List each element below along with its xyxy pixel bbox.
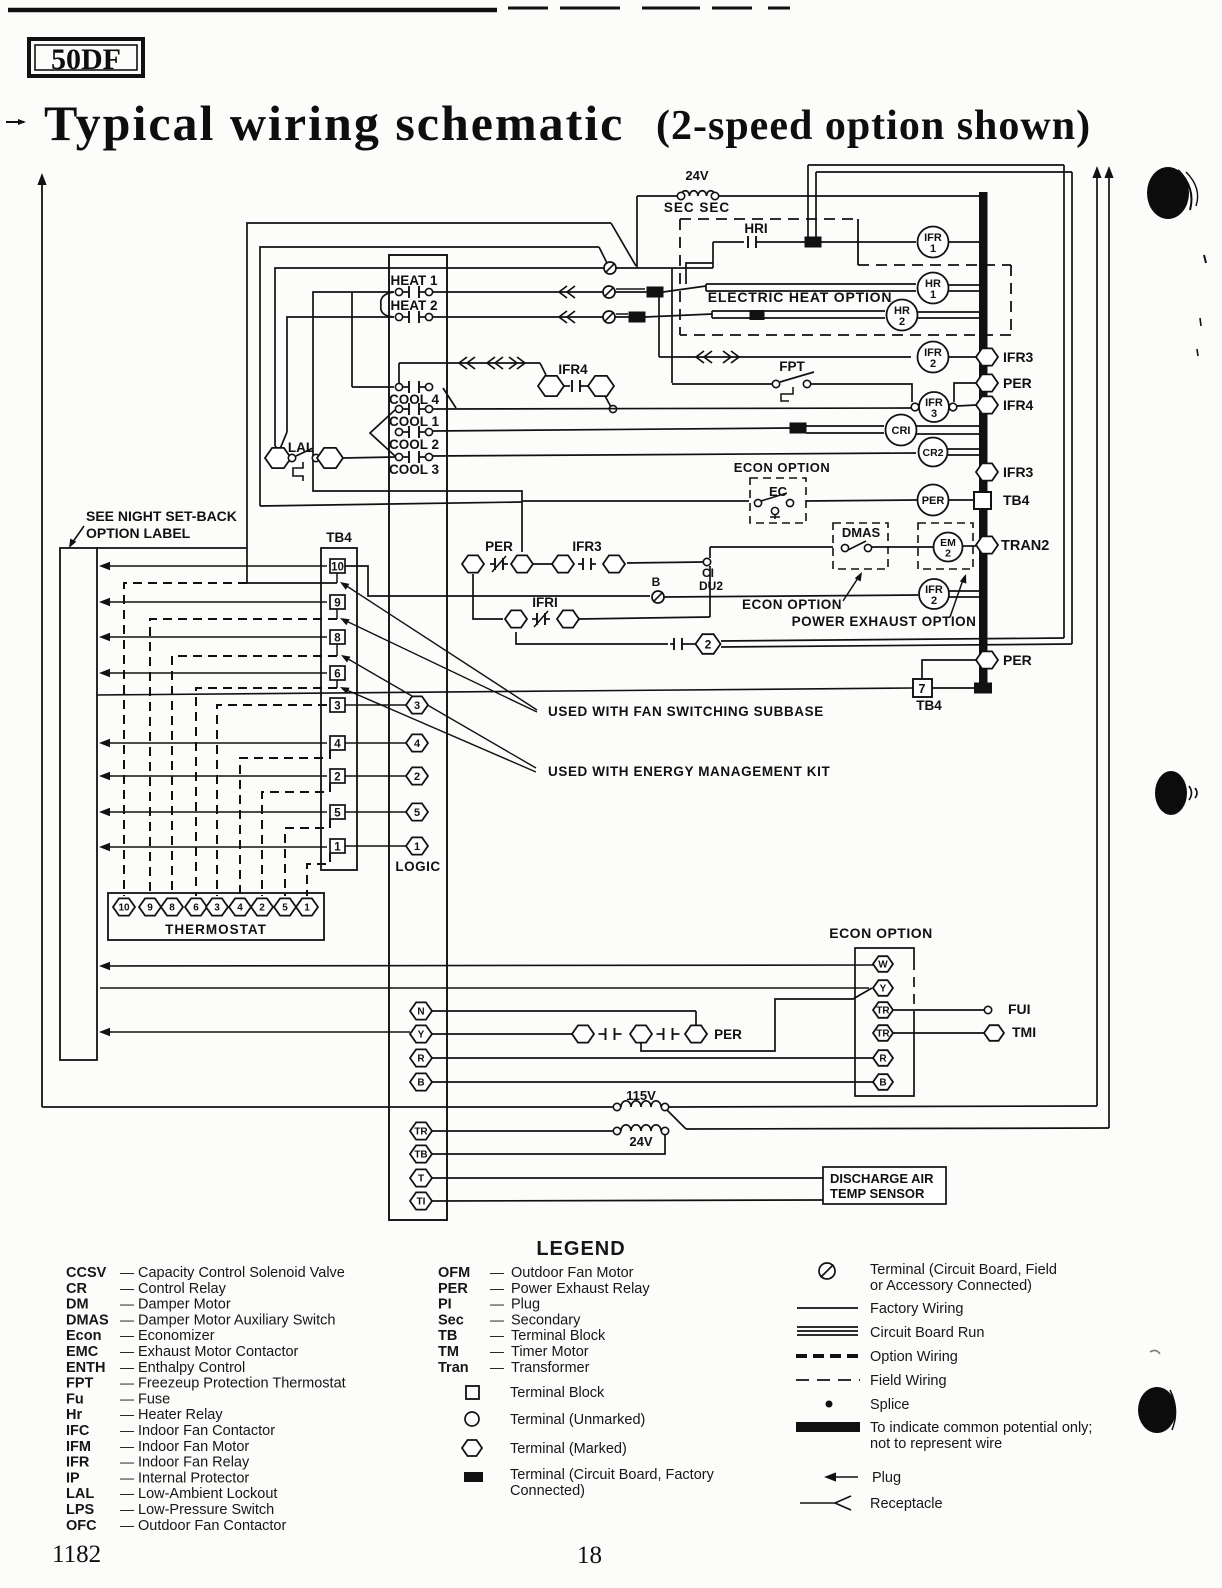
svg-text:Outdoor Fan Contactor: Outdoor Fan Contactor: [138, 1518, 286, 1534]
svg-text:—: —: [490, 1264, 504, 1280]
svg-text:—: —: [490, 1296, 504, 1312]
svg-text:or Accessory Connected): or Accessory Connected): [870, 1278, 1032, 1294]
svg-text:HEAT 2: HEAT 2: [390, 298, 437, 313]
svg-text:—: —: [120, 1375, 134, 1391]
svg-text:—: —: [120, 1343, 134, 1359]
svg-text:CCSV: CCSV: [66, 1265, 107, 1281]
svg-text:DISCHARGE AIR: DISCHARGE AIR: [830, 1171, 934, 1186]
svg-text:FUI: FUI: [1008, 1001, 1031, 1017]
svg-text:TB4: TB4: [326, 530, 352, 545]
svg-text:3: 3: [214, 903, 220, 914]
svg-text:2: 2: [899, 316, 905, 328]
svg-text:EMC: EMC: [66, 1344, 99, 1360]
svg-text:TEMP SENSOR: TEMP SENSOR: [830, 1186, 925, 1201]
svg-text:TM: TM: [438, 1344, 459, 1360]
svg-text:—: —: [490, 1280, 504, 1296]
svg-text:Sec: Sec: [438, 1312, 464, 1328]
svg-text:IFR4: IFR4: [1003, 397, 1034, 413]
svg-text:10: 10: [118, 903, 130, 914]
svg-text:IFRI: IFRI: [532, 595, 558, 610]
svg-text:FPT: FPT: [779, 359, 805, 374]
svg-text:CR2: CR2: [922, 447, 943, 459]
svg-text:—: —: [490, 1311, 504, 1327]
svg-text:ENTH: ENTH: [66, 1360, 105, 1376]
svg-text:HRI: HRI: [744, 221, 767, 236]
svg-text:TB4: TB4: [1003, 492, 1030, 508]
svg-text:Indoor Fan Motor: Indoor Fan Motor: [138, 1439, 249, 1455]
svg-text:USED WITH FAN SWITCHING SUBBAS: USED WITH FAN SWITCHING SUBBASE: [548, 704, 824, 719]
svg-text:B: B: [879, 1078, 886, 1089]
svg-text:10: 10: [331, 562, 344, 574]
svg-text:THERMOSTAT: THERMOSTAT: [165, 922, 267, 937]
svg-text:IFR: IFR: [66, 1455, 90, 1471]
svg-text:Internal Protector: Internal Protector: [138, 1470, 249, 1486]
svg-text:Terminal Block: Terminal Block: [510, 1385, 605, 1401]
svg-text:Circuit Board Run: Circuit Board Run: [870, 1325, 984, 1341]
svg-text:Terminal (Circuit Board, Facto: Terminal (Circuit Board, Factory: [510, 1467, 715, 1483]
svg-text:—: —: [120, 1296, 134, 1312]
svg-text:—: —: [120, 1406, 134, 1422]
svg-text:TR: TR: [876, 1006, 890, 1017]
svg-text:4: 4: [414, 738, 421, 750]
svg-text:6: 6: [193, 903, 199, 914]
svg-text:COOL 4: COOL 4: [389, 392, 440, 407]
svg-text:TB: TB: [438, 1328, 457, 1344]
svg-text:1: 1: [930, 243, 936, 255]
svg-text:3: 3: [414, 700, 420, 712]
svg-text:1: 1: [334, 842, 341, 854]
svg-text:—: —: [120, 1359, 134, 1375]
svg-text:EC: EC: [769, 484, 788, 499]
svg-text:—: —: [490, 1327, 504, 1343]
svg-text:Indoor Fan Relay: Indoor Fan Relay: [138, 1455, 250, 1471]
svg-text:6: 6: [334, 669, 340, 681]
svg-text:9: 9: [334, 598, 340, 610]
svg-text:Secondary: Secondary: [511, 1312, 581, 1328]
svg-text:IFR3: IFR3: [1003, 349, 1034, 365]
svg-text:—: —: [120, 1327, 134, 1343]
svg-text:LEGEND: LEGEND: [536, 1238, 625, 1260]
svg-text:—: —: [490, 1359, 504, 1375]
svg-text:4: 4: [237, 903, 243, 914]
svg-text:24V: 24V: [685, 168, 708, 183]
svg-text:LOGIC: LOGIC: [395, 859, 440, 874]
svg-text:Heater Relay: Heater Relay: [138, 1407, 223, 1423]
svg-text:COOL 1: COOL 1: [389, 414, 440, 429]
svg-text:1182: 1182: [52, 1541, 101, 1568]
svg-text:5: 5: [414, 807, 420, 819]
svg-text:Power Exhaust Relay: Power Exhaust Relay: [511, 1281, 650, 1297]
svg-text:PI: PI: [438, 1297, 452, 1313]
svg-text:—: —: [120, 1517, 134, 1533]
svg-text:Option Wiring: Option Wiring: [870, 1349, 958, 1365]
svg-text:USED WITH ENERGY MANAGEMENT KI: USED WITH ENERGY MANAGEMENT KIT: [548, 764, 831, 779]
svg-text:3: 3: [931, 408, 937, 420]
svg-text:PER: PER: [922, 495, 945, 507]
svg-text:COOL 3: COOL 3: [389, 462, 440, 477]
svg-text:TB: TB: [414, 1150, 427, 1161]
svg-text:Field Wiring: Field Wiring: [870, 1373, 947, 1389]
svg-text:TR: TR: [876, 1029, 890, 1040]
svg-text:1: 1: [304, 903, 310, 914]
svg-text:DU2: DU2: [699, 579, 723, 593]
svg-text:N: N: [417, 1007, 424, 1018]
svg-text:R: R: [417, 1054, 425, 1065]
svg-text:IFR3: IFR3: [1003, 464, 1034, 480]
svg-text:Freezeup Protection Thermostat: Freezeup Protection Thermostat: [138, 1376, 346, 1392]
svg-text:TB4: TB4: [916, 698, 942, 713]
svg-text:Capacity Control Solenoid Valv: Capacity Control Solenoid Valve: [138, 1265, 345, 1281]
svg-text:ECON OPTION: ECON OPTION: [829, 925, 933, 941]
svg-text:Low-Ambient Lockout: Low-Ambient Lockout: [138, 1486, 277, 1502]
svg-text:Timer Motor: Timer Motor: [511, 1344, 589, 1360]
svg-text:Y: Y: [418, 1030, 425, 1041]
svg-text:Factory Wiring: Factory Wiring: [870, 1301, 963, 1317]
svg-text:2: 2: [930, 358, 936, 370]
svg-text:TR: TR: [414, 1127, 428, 1138]
svg-text:2: 2: [705, 637, 712, 651]
svg-text:POWER EXHAUST OPTION: POWER EXHAUST OPTION: [792, 614, 977, 629]
svg-text:OFC: OFC: [66, 1518, 97, 1534]
svg-text:Plug: Plug: [511, 1297, 540, 1313]
svg-text:Fu: Fu: [66, 1391, 84, 1407]
svg-text:2: 2: [259, 903, 265, 914]
svg-text:2: 2: [334, 772, 340, 784]
svg-text:Terminal (Circuit Board, Field: Terminal (Circuit Board, Field: [870, 1262, 1057, 1278]
svg-text:Control Relay: Control Relay: [138, 1281, 227, 1297]
svg-text:Fuse: Fuse: [138, 1391, 170, 1407]
svg-text:Receptacle: Receptacle: [870, 1496, 943, 1512]
svg-text:SEC SEC: SEC SEC: [664, 200, 730, 215]
svg-text:PER: PER: [714, 1027, 742, 1042]
svg-text:(2-speed option shown): (2-speed option shown): [656, 103, 1091, 149]
svg-text:OFM: OFM: [438, 1265, 470, 1281]
svg-text:DMAS: DMAS: [842, 525, 881, 540]
svg-text:Enthalpy Control: Enthalpy Control: [138, 1360, 245, 1376]
svg-text:3: 3: [334, 701, 340, 713]
svg-text:50DF: 50DF: [51, 43, 121, 76]
svg-text:1: 1: [414, 841, 420, 853]
svg-text:CR: CR: [66, 1281, 87, 1297]
svg-text:Y: Y: [880, 984, 887, 995]
svg-text:—: —: [120, 1454, 134, 1470]
svg-text:—: —: [120, 1422, 134, 1438]
svg-text:Economizer: Economizer: [138, 1328, 215, 1344]
svg-text:DM: DM: [66, 1297, 89, 1313]
svg-text:9: 9: [147, 903, 153, 914]
svg-text:PER: PER: [438, 1281, 468, 1297]
svg-text:FPT: FPT: [66, 1376, 94, 1392]
svg-text:24V: 24V: [629, 1134, 652, 1149]
svg-text:COOL 2: COOL 2: [389, 437, 439, 452]
svg-text:2: 2: [945, 548, 951, 560]
svg-text:—: —: [490, 1343, 504, 1359]
svg-text:TMI: TMI: [1012, 1024, 1036, 1040]
svg-text:1: 1: [930, 289, 936, 301]
svg-text:Econ: Econ: [66, 1328, 101, 1344]
svg-text:Exhaust Motor Contactor: Exhaust Motor Contactor: [138, 1344, 299, 1360]
svg-text:5: 5: [282, 903, 288, 914]
svg-text:Connected): Connected): [510, 1483, 585, 1499]
svg-text:IFR4: IFR4: [558, 362, 588, 377]
svg-text:HEAT 1: HEAT 1: [390, 273, 437, 288]
svg-text:Terminal Block: Terminal Block: [511, 1328, 606, 1344]
svg-text:TI: TI: [417, 1197, 426, 1208]
svg-text:2: 2: [931, 595, 937, 607]
svg-text:115V: 115V: [626, 1088, 656, 1103]
svg-text:IP: IP: [66, 1470, 80, 1486]
svg-text:Plug: Plug: [872, 1470, 901, 1486]
svg-text:TRAN2: TRAN2: [1001, 538, 1049, 554]
svg-text:ECON OPTION: ECON OPTION: [742, 597, 842, 612]
svg-text:Transformer: Transformer: [511, 1360, 590, 1376]
svg-text:—: —: [120, 1280, 134, 1296]
svg-text:PER: PER: [1003, 652, 1032, 668]
svg-text:—: —: [120, 1469, 134, 1485]
svg-text:T: T: [418, 1174, 424, 1185]
svg-text:PER: PER: [485, 539, 513, 554]
svg-text:Terminal (Marked): Terminal (Marked): [510, 1441, 627, 1457]
svg-text:IFM: IFM: [66, 1439, 91, 1455]
svg-text:Splice: Splice: [870, 1397, 910, 1413]
svg-text:—: —: [120, 1264, 134, 1280]
svg-text:2: 2: [414, 771, 420, 783]
svg-text:To indicate common potential o: To indicate common potential only;: [870, 1420, 1092, 1436]
svg-text:IFC: IFC: [66, 1423, 90, 1439]
svg-text:8: 8: [334, 633, 341, 645]
svg-text:CI: CI: [702, 566, 714, 580]
svg-text:—: —: [120, 1390, 134, 1406]
svg-text:Indoor Fan Contactor: Indoor Fan Contactor: [138, 1423, 275, 1439]
svg-text:Low-Pressure Switch: Low-Pressure Switch: [138, 1502, 274, 1518]
svg-text:Hr: Hr: [66, 1407, 82, 1423]
svg-text:DMAS: DMAS: [66, 1312, 109, 1328]
svg-text:Outdoor Fan Motor: Outdoor Fan Motor: [511, 1265, 634, 1281]
svg-text:IFR3: IFR3: [572, 539, 602, 554]
svg-text:Tran: Tran: [438, 1360, 469, 1376]
svg-text:8: 8: [169, 903, 175, 914]
svg-text:CRI: CRI: [892, 425, 911, 437]
svg-text:LAL: LAL: [66, 1486, 94, 1502]
svg-text:Damper Motor: Damper Motor: [138, 1297, 231, 1313]
svg-text:—: —: [120, 1485, 134, 1501]
svg-text:Damper Motor Auxiliary Switch: Damper Motor Auxiliary Switch: [138, 1312, 335, 1328]
svg-text:ECON OPTION: ECON OPTION: [734, 460, 831, 475]
svg-text:LPS: LPS: [66, 1502, 95, 1518]
svg-text:—: —: [120, 1438, 134, 1454]
svg-text:Terminal (Unmarked): Terminal (Unmarked): [510, 1412, 645, 1428]
svg-text:B: B: [417, 1078, 424, 1089]
svg-text:—: —: [120, 1501, 134, 1517]
svg-text:PER: PER: [1003, 375, 1032, 391]
svg-text:Typical wiring schematic: Typical wiring schematic: [44, 95, 624, 151]
svg-text:OPTION LABEL: OPTION LABEL: [86, 525, 191, 541]
svg-text:not to represent wire: not to represent wire: [870, 1436, 1002, 1452]
svg-text:4: 4: [334, 739, 341, 751]
svg-text:18: 18: [577, 1542, 602, 1569]
svg-text:5: 5: [334, 808, 341, 820]
svg-text:SEE NIGHT SET-BACK: SEE NIGHT SET-BACK: [86, 508, 237, 524]
svg-text:7: 7: [919, 682, 926, 696]
svg-text:W: W: [878, 960, 888, 971]
svg-text:B: B: [652, 575, 661, 589]
svg-text:—: —: [120, 1311, 134, 1327]
svg-text:R: R: [879, 1054, 887, 1065]
